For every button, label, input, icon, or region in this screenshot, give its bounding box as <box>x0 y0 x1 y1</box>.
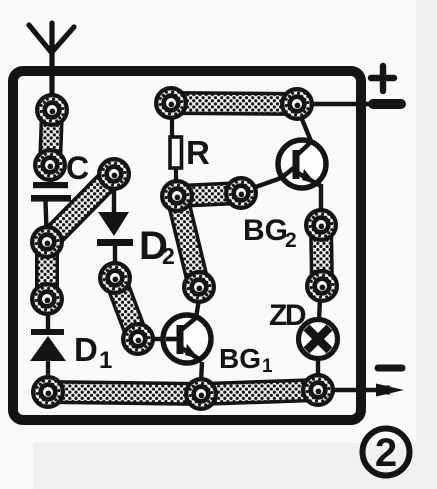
background scan tint right edge <box>416 0 437 489</box>
wire diode D2 to pad <box>113 246 117 266</box>
svg-text:ZD: ZD <box>269 299 306 332</box>
transistor BG2 <box>278 140 326 188</box>
wire resistor R to pad <box>174 168 178 184</box>
pad antenna <box>37 95 67 125</box>
wire BG1 base to pad <box>150 337 166 341</box>
wire negative rail pad to - terminal arrow <box>330 388 380 393</box>
wire trace BG2 emitter to ZD <box>321 225 322 286</box>
svg-text:BG: BG <box>243 214 288 247</box>
pad C top <box>35 150 65 180</box>
wire trace node A diagonal <box>47 174 114 242</box>
wire BG1 collector to pad above <box>196 299 199 318</box>
svg-text:2: 2 <box>375 431 397 475</box>
diode D2 <box>98 212 129 236</box>
wire trace antenna pad to C pad <box>50 110 52 165</box>
svg-text:2: 2 <box>162 243 175 269</box>
pad BG2 emitter <box>306 210 336 240</box>
wire capacitor to node A <box>46 201 47 230</box>
pad ZD top <box>307 271 337 301</box>
pad D2 cathode <box>100 263 130 293</box>
pad node A junction <box>32 227 62 257</box>
capacitor C <box>33 182 68 188</box>
pad D1 anode bottom rail <box>33 377 63 407</box>
antenna <box>29 23 74 100</box>
transistor BG1 <box>163 315 211 363</box>
pad D1 cathode <box>32 284 62 314</box>
wire pad to BG2 base <box>250 178 281 189</box>
pad BG1 emitter bottom rail <box>186 379 216 409</box>
background scan tint bottom band <box>33 443 437 489</box>
pad BG2 collector rail <box>282 89 312 119</box>
pad BG1 collector <box>184 272 214 302</box>
wire pad to lamp ZD <box>319 298 320 322</box>
wire C pad to capacitor <box>49 176 53 183</box>
wire diode D1 to negative rail pad <box>46 361 50 380</box>
wire BG1 emitter to bottom rail pad <box>201 362 202 382</box>
svg-text:1: 1 <box>262 356 273 377</box>
wire positive rail pad to + terminal <box>310 102 375 107</box>
board outline <box>13 71 361 420</box>
wire BG2 collector to positive rail pad <box>299 112 311 141</box>
resistor R <box>170 137 182 168</box>
wire lamp ZD to negative rail pad <box>316 357 320 378</box>
+ symbol <box>371 75 394 81</box>
pad ZD bottom rail <box>303 375 333 405</box>
svg-text:D: D <box>74 331 98 368</box>
pad D2 anode <box>99 159 129 189</box>
- terminal arrow <box>376 384 404 397</box>
wire top rail pad to resistor R <box>170 115 174 138</box>
wire BG2 emitter to pad <box>319 184 323 214</box>
wire pad to diode D1 <box>46 310 50 330</box>
wire trace bottom negative rail <box>48 390 318 394</box>
wire trace L-shape R to BG2 base and BG1 collector <box>177 193 241 287</box>
figure number 2 circled <box>363 429 410 476</box>
pad BG2 base <box>226 178 256 208</box>
svg-text:1: 1 <box>99 347 112 374</box>
pad BG1 base <box>123 324 153 354</box>
svg-text:BG: BG <box>219 343 261 374</box>
wire trace D2 to BG1 base diagonal <box>115 278 138 339</box>
pad R bottom <box>162 181 192 211</box>
svg-text:C: C <box>66 150 89 186</box>
diode D1 <box>31 329 64 335</box>
wire pad to diode D2 <box>112 186 116 213</box>
svg-text:R: R <box>186 134 210 171</box>
pad R top rail <box>156 88 186 118</box>
+ terminal lead bar <box>373 99 401 109</box>
wire trace node A vertical <box>35 242 59 299</box>
svg-text:2: 2 <box>285 229 297 252</box>
wire trace top positive rail <box>171 103 297 104</box>
lamp ZD <box>299 320 338 359</box>
- symbol <box>378 365 402 372</box>
